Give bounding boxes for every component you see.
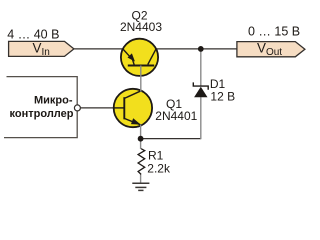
transistor Q1 emitter diagonal <box>124 118 140 124</box>
svg-text:R1: R1 <box>148 148 164 162</box>
Vin arrow tag <box>9 41 74 56</box>
transistor Q1 base bar <box>123 97 125 119</box>
svg-text:2N4403: 2N4403 <box>120 20 162 34</box>
wire Q2 base to Q1 collector <box>140 66 142 93</box>
node junction dot at emitter/R1 <box>138 136 144 142</box>
svg-text:2.2k: 2.2k <box>147 161 171 175</box>
svg-text:Микро-: Микро- <box>34 95 73 107</box>
transistor Q1 collector diagonal <box>124 91 140 98</box>
node junction dot on rail <box>198 46 204 52</box>
transistor Q1 body <box>114 89 152 127</box>
Vout arrow tag <box>237 42 305 57</box>
microcontroller pin circle <box>74 105 80 111</box>
wire junction to R1 <box>140 139 142 149</box>
transistor Q1 emitter arrow (NPN) <box>131 118 141 124</box>
ground symbol <box>132 183 149 190</box>
svg-text:12 В: 12 В <box>210 90 235 104</box>
transistor Q2 collector diagonal <box>148 49 156 65</box>
svg-text:контроллер: контроллер <box>10 108 74 120</box>
svg-text:4 … 40 В: 4 … 40 В <box>7 27 59 41</box>
wire D1 anode down segment <box>200 97 202 139</box>
wire R1 to ground <box>140 174 142 183</box>
transistor Q2 emitter diagonal <box>123 49 134 66</box>
diode D1 zener triangle <box>194 87 207 98</box>
diode D1 zener cathode bar <box>193 82 208 89</box>
microcontroller box (open left) <box>4 77 77 138</box>
wire main top rail Vin to Vout <box>73 48 237 50</box>
transistor Q2 base bar <box>128 65 154 67</box>
transistor Q1 base lead inside <box>114 107 125 109</box>
transistor Q2 emitter arrow (PNP) <box>128 53 136 61</box>
svg-text:2N4401: 2N4401 <box>155 109 197 123</box>
wire junction to below D1 <box>141 138 201 140</box>
wire D1 cathode up to rail <box>200 49 202 86</box>
wire microcontroller pin to Q1 base <box>80 107 124 109</box>
resistor R1 zigzag <box>138 149 145 175</box>
transistor Q2 body <box>121 39 158 76</box>
wire Q1 emitter down to junction <box>140 124 142 139</box>
svg-text:0 … 15 В: 0 … 15 В <box>248 25 300 39</box>
